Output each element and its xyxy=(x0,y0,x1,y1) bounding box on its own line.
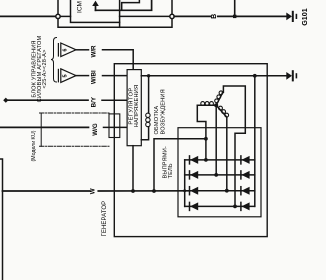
svg-text:6: 6 xyxy=(63,49,69,52)
generator box xyxy=(114,64,267,237)
arrow stem thick wire to riser xyxy=(96,0,152,10)
ground 2 triangle xyxy=(286,72,292,80)
nested wire L1 xyxy=(122,0,140,10)
ground 2 bar xyxy=(292,70,294,81)
wire left feed to node A xyxy=(0,15,56,17)
svg-text:ТЕЛЬ: ТЕЛЬ xyxy=(168,163,174,178)
stator coil1 bumps xyxy=(201,102,214,106)
diode D2R bar xyxy=(240,171,242,179)
stator coil1 wire xyxy=(197,104,216,106)
battery branch up xyxy=(234,0,236,16)
stator coil3 diagonal xyxy=(216,105,227,117)
connector triangle 6 double bar xyxy=(57,44,59,56)
svg-text:B/Y: B/Y xyxy=(90,96,97,107)
junction dot phase A row1 xyxy=(204,158,208,162)
loop wire lower horizontal xyxy=(58,19,172,28)
diode D2R body xyxy=(241,171,249,179)
junction dot neutral row2 xyxy=(214,173,218,177)
diode D2L body xyxy=(190,171,198,179)
diode D1R body xyxy=(241,156,249,164)
row3 wire xyxy=(190,190,255,192)
svg-text:ВОЗБУЖДЕНИЯ: ВОЗБУЖДЕНИЯ xyxy=(161,89,167,134)
B wire label to ground xyxy=(218,15,286,17)
connector triangle 5 xyxy=(61,69,76,83)
junction dot left rail row3 xyxy=(183,189,186,192)
phase A route from coil1 xyxy=(197,105,206,160)
ground G101 dash xyxy=(296,14,298,19)
node A connector circle xyxy=(56,14,60,18)
phase C vertical from coil3 xyxy=(226,117,228,191)
wire W left xyxy=(3,190,90,192)
rectifier left rail xyxy=(184,160,186,207)
dash-dot box left bracket xyxy=(40,113,42,146)
diode D1L body xyxy=(190,156,198,164)
ground 2 dash xyxy=(296,73,298,78)
diode D2L bar xyxy=(189,171,191,179)
stator coil2 diagonal xyxy=(216,92,223,105)
voltage regulator box xyxy=(127,70,141,146)
junction dot on B wire xyxy=(233,15,236,18)
node B connector circle xyxy=(170,14,174,18)
wire W/R left xyxy=(76,49,89,51)
junction dot W tap on phase A xyxy=(204,137,208,141)
dash-dot box bottom xyxy=(40,145,110,147)
svg-text:НАПРЯЖЕНИЯ: НАПРЯЖЕНИЯ xyxy=(134,85,140,127)
ground G101 triangle xyxy=(286,13,292,21)
svg-text:W/G: W/G xyxy=(92,123,99,136)
row2 wire xyxy=(185,174,255,176)
junction dot phase D row4 xyxy=(233,205,237,209)
svg-text:B: B xyxy=(211,14,218,19)
wire W/G right to regulator xyxy=(104,126,128,128)
diode D4R bar xyxy=(240,202,242,210)
arrow vertical stem xyxy=(95,5,97,11)
svg-text:(Модели KU): (Модели KU) xyxy=(31,130,37,161)
field winding wire lower to regulator xyxy=(141,127,148,140)
junction dot W tap bottom xyxy=(152,189,156,193)
ICM box bottom stub xyxy=(119,22,121,27)
rectifier right rail to ground junction xyxy=(254,76,256,207)
diode D3R body xyxy=(241,187,249,195)
regulator right ground wire xyxy=(141,75,286,77)
field winding coil bumps xyxy=(146,113,150,127)
wire ICM right to node B xyxy=(120,15,170,17)
wire node A to ICM box xyxy=(60,15,70,17)
wire W/G left xyxy=(0,126,89,128)
connector rect on W/G at generator boundary xyxy=(109,114,120,138)
svg-text:<25-A><28-A>: <25-A><28-A> xyxy=(42,49,48,88)
ICM box xyxy=(71,0,120,22)
svg-text:W/Bl: W/Bl xyxy=(91,70,98,84)
dash-dot box top (Modeli KU) xyxy=(40,112,110,114)
diode D4L bar xyxy=(189,202,191,210)
wire node B up to top edge xyxy=(171,0,173,14)
PCM brace xyxy=(51,38,57,83)
wire B/Y right to regulator xyxy=(102,99,127,101)
stator coil3 bumps xyxy=(219,106,229,117)
phase B neutral vertical xyxy=(215,105,217,175)
junction dot regulator wire on W xyxy=(131,189,135,193)
wire node A up to top edge xyxy=(57,0,59,14)
diode D1L bar xyxy=(189,156,191,164)
diode D3L bar xyxy=(189,187,191,195)
junction dot ground rail xyxy=(253,74,257,78)
wire W/Bl right to regulator xyxy=(103,75,128,77)
junction dot field coil top xyxy=(147,74,150,77)
wire W/R right with bend down to regulator top xyxy=(103,50,134,70)
diode D1R bar xyxy=(240,156,242,164)
B wire to label xyxy=(174,15,210,17)
svg-text:ICM: ICM xyxy=(77,1,84,13)
connector triangle 5 double bar xyxy=(57,69,59,81)
svg-text:G101: G101 xyxy=(300,8,309,26)
W tap wire xyxy=(154,139,206,191)
diode D4L body xyxy=(190,202,198,210)
svg-text:ГЕНЕРАТОР: ГЕНЕРАТОР xyxy=(102,201,108,237)
B/Y end marker xyxy=(3,98,8,103)
svg-text:5: 5 xyxy=(63,74,69,77)
wire B/Y left xyxy=(8,99,89,101)
rectifier box xyxy=(178,128,261,217)
arrow head xyxy=(92,1,99,6)
row1 wire xyxy=(185,159,255,161)
svg-text:ОБМОТКА: ОБМОТКА xyxy=(154,106,160,135)
diode D4R body xyxy=(241,202,249,210)
left edge wire vertical xyxy=(0,159,3,280)
row4 wire xyxy=(185,205,255,207)
svg-text:W: W xyxy=(90,188,97,194)
stator center junction dot xyxy=(214,103,218,107)
ground G101 bar xyxy=(292,11,294,22)
stator coil2 bumps xyxy=(215,91,223,103)
diode D3L body xyxy=(190,187,198,195)
phase D route from coil2 xyxy=(223,86,246,206)
diode D3R bar xyxy=(240,187,242,195)
svg-text:W/R: W/R xyxy=(91,45,98,58)
regulator bottom wire to W junction xyxy=(132,146,134,191)
wire W into generator to rectifier row3 xyxy=(98,190,189,192)
wire W/Bl left xyxy=(76,75,89,77)
field winding wire upper xyxy=(148,76,150,113)
connector triangle 6 xyxy=(61,43,76,57)
junction dot phase C row3 xyxy=(225,189,229,193)
